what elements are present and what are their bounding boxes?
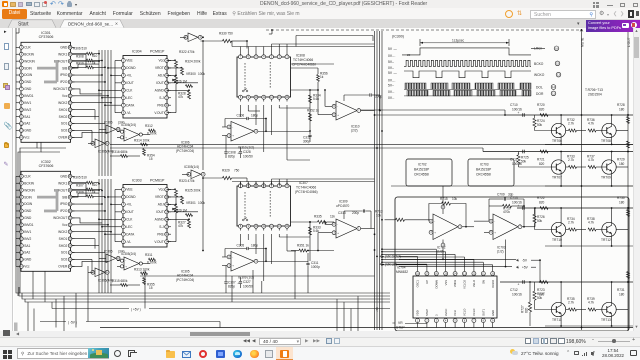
svg-text:820: 820: [539, 107, 545, 111]
svg-text:820: 820: [525, 307, 529, 313]
svg-text:+VL: +VL: [126, 74, 132, 78]
left nav panel: [0, 28, 13, 331]
svg-text:GND: GND: [24, 209, 32, 213]
resistor R732 2.7k: [566, 118, 586, 132]
svg-text:DGND: DGND: [126, 66, 136, 70]
resistor R738 4.7k: [587, 217, 602, 231]
svg-text:SHO2: SHO2: [59, 115, 68, 119]
title bar: [0, 0, 640, 8]
transistor TR713 2SD1504: [601, 302, 616, 322]
window controls: [593, 2, 595, 4]
svg-text:×: ×: [115, 22, 118, 28]
svg-text:INV1: INV1: [24, 101, 31, 105]
svg-text:SDIN: SDIN: [24, 66, 32, 70]
svg-text:INVD1: INVD1: [24, 223, 34, 227]
svg-text:16: 16: [555, 46, 558, 50]
svg-text:R310: R310: [76, 62, 84, 66]
svg-text:13: 13: [557, 73, 560, 77]
IC IC302 CF37606: [16, 160, 75, 271]
wire: [16, 137, 308, 331]
svg-text:INVD1: INVD1: [24, 94, 34, 98]
wire: [241, 105, 311, 160]
resistor R722 820: [537, 196, 548, 209]
status bar: [0, 337, 640, 347]
svg-text:-: -: [125, 130, 126, 134]
svg-text:+VL: +VL: [126, 203, 132, 207]
svg-text:Start: Start: [18, 22, 29, 28]
svg-text:1k: 1k: [320, 75, 324, 79]
svg-text:SIB: SIB: [62, 195, 67, 199]
svg-text:470k: 470k: [503, 210, 510, 214]
svg-text:750: 750: [234, 168, 240, 172]
svg-text:Vcc: Vcc: [158, 188, 164, 192]
svg-text:AVCC: AVCC: [444, 309, 448, 316]
svg-text:CLK: CLK: [126, 89, 133, 93]
wire dashed control: [266, 29, 582, 31]
svg-text:IOUT: IOUT: [126, 210, 134, 214]
svg-text:V.OUT: V.OUT: [154, 240, 163, 244]
svg-text:0V....: 0V....: [388, 78, 395, 82]
svg-text:4.7k: 4.7k: [588, 158, 594, 162]
svg-text:100/50: 100/50: [243, 154, 253, 158]
svg-text:GND: GND: [60, 46, 68, 50]
svg-text:-VL: -VL: [126, 240, 131, 244]
wire dash hook to 4066: [269, 29, 273, 34]
op-amp IC309 (1/2): [222, 252, 308, 280]
wire input feeds: [317, 89, 326, 251]
capacitor C307 820p: [224, 266, 235, 289]
svg-text:2.7k: 2.7k: [568, 301, 574, 305]
svg-text:( -5V ): ( -5V ): [68, 321, 77, 325]
svg-text:C709: C709: [497, 193, 505, 197]
resistor R354 15: [143, 149, 155, 161]
svg-text:SO1: SO1: [61, 251, 68, 255]
svg-text:180: 180: [619, 162, 625, 166]
svg-text:-5V: -5V: [522, 258, 528, 262]
svg-text:R313 100k: R313 100k: [134, 267, 150, 271]
resistor R335 11k (ch2): [291, 214, 335, 223]
svg-text:INV1: INV1: [24, 230, 31, 234]
svg-text:47k: 47k: [178, 224, 184, 228]
tray: [510, 349, 515, 354]
svg-text:180: 180: [619, 292, 625, 296]
wire: [483, 151, 633, 187]
svg-text:R329: R329: [222, 168, 230, 172]
resistor R726 50k 50k: [533, 208, 551, 230]
svg-text:INV2: INV2: [24, 108, 31, 112]
svg-text:GND: GND: [24, 80, 32, 84]
resistor R729 180: [617, 141, 630, 166]
svg-text:R330 750: R330 750: [219, 32, 233, 36]
svg-text:WCKIN: WCKIN: [24, 59, 35, 63]
op-amp IC310 (2/2): [318, 101, 375, 132]
svg-text:IP2O: IP2O: [60, 80, 68, 84]
potentiometer VR301 100k: [172, 201, 205, 213]
capacitor C311 1000p: [306, 253, 320, 270]
capacitor C308 820p: [224, 136, 235, 159]
svg-text:IC302: IC302: [41, 160, 51, 164]
svg-text:WCK2: WCK2: [58, 101, 67, 105]
svg-text:-: -: [125, 259, 126, 263]
IC IC703 label box: [468, 159, 514, 186]
svg-text:5V--: 5V--: [388, 60, 394, 64]
quick access toolbar icons: [2, 1, 8, 7]
resistor R333 5.6k: [309, 225, 321, 235]
svg-text:2.7k: 2.7k: [568, 221, 574, 225]
wire: [167, 189, 198, 242]
resistor R308 510: [72, 54, 102, 62]
svg-text:12: 12: [552, 85, 555, 89]
wire VR STEP to pin 2: [405, 323, 427, 324]
svg-text:IOUT: IOUT: [126, 81, 134, 85]
svg-text:33p: 33p: [508, 193, 514, 197]
svg-text:10k: 10k: [452, 197, 458, 201]
svg-text:(PC74HC04): (PC74HC04): [176, 149, 194, 153]
svg-text:Vcc: Vcc: [62, 223, 68, 227]
resistor R329 1M: [174, 209, 193, 217]
svg-text:10k: 10k: [376, 214, 382, 218]
wire: [517, 207, 633, 247]
svg-text:VROT: VROT: [155, 66, 164, 70]
IC IC702 label box: [406, 159, 452, 186]
IC IC301 CF37606: [16, 31, 75, 143]
svg-text:+: +: [518, 111, 520, 115]
svg-text:LEC: LEC: [126, 96, 133, 100]
svg-text:T.R706~713: T.R706~713: [585, 88, 603, 92]
svg-text:VCLI: VCLI: [453, 310, 457, 316]
svg-text:OVER: OVER: [58, 136, 68, 140]
svg-text:TC74HC4066: TC74HC4066: [293, 58, 313, 62]
resistor R736 4.7k: [587, 118, 602, 132]
wire: [505, 114, 633, 145]
capacitor C709 33p: [489, 193, 524, 227]
wire: [18, 142, 358, 331]
svg-text:IC304: IC304: [132, 50, 142, 54]
resistor R316 680k: [110, 150, 140, 158]
svg-text:IC306(2/4): IC306(2/4): [121, 123, 136, 127]
wire: [291, 64, 334, 131]
svg-text:5V--: 5V--: [388, 84, 394, 88]
resistor R334 5.6k: [309, 93, 321, 103]
transistor TR712 2SD1504: [601, 222, 616, 242]
svg-text:IC702: IC702: [418, 162, 427, 166]
svg-text:TR709: TR709: [601, 175, 611, 179]
svg-text:IC309: IC309: [339, 200, 348, 204]
svg-text:100k: 100k: [198, 201, 205, 205]
resistor R328 47k: [178, 91, 191, 99]
svg-text:AGND: AGND: [155, 218, 165, 222]
svg-text:TR706: TR706: [552, 139, 562, 143]
svg-text:WCKOUT: WCKOUT: [53, 216, 67, 220]
node -5V bus: [40, 321, 220, 328]
resistor R720 820: [537, 103, 548, 116]
svg-text:(IC300): (IC300): [392, 35, 404, 39]
inverter IC305 (3/4): [99, 250, 125, 263]
svg-text:820: 820: [539, 200, 545, 204]
svg-text:50k: 50k: [537, 296, 543, 300]
svg-text:2SD1504: 2SD1504: [588, 93, 602, 97]
svg-text:820p: 820p: [228, 155, 235, 159]
wire: [500, 281, 633, 327]
svg-text:GND: GND: [24, 258, 32, 262]
svg-text:5.6k: 5.6k: [313, 97, 319, 101]
svg-text:0V--: 0V--: [388, 66, 394, 70]
svg-text:IC308: IC308: [296, 54, 305, 58]
svg-text:R316 680k: R316 680k: [112, 150, 128, 154]
svg-text:WCK1: WCK1: [58, 181, 67, 185]
resistor R351 1k: [291, 243, 334, 252]
svg-text:4.7k: 4.7k: [588, 301, 594, 305]
svg-text:TR710: TR710: [552, 238, 562, 242]
svg-text:GND: GND: [24, 129, 32, 133]
svg-text:47k: 47k: [178, 95, 184, 99]
svg-text:R715: R715: [440, 197, 448, 201]
svg-text:180: 180: [619, 200, 625, 204]
svg-text:WCKOUT: WCKOUT: [53, 87, 67, 91]
resistor R315 680k: [110, 279, 140, 287]
svg-text:STEP: STEP: [425, 309, 429, 316]
gray highlight annotation: [37, 60, 58, 82]
capacitor C305 180p: [225, 244, 267, 263]
svg-text:GND: GND: [24, 216, 32, 220]
svg-text:IP9O: IP9O: [60, 202, 68, 206]
svg-text:OVER: OVER: [58, 265, 68, 269]
svg-text:UP: UP: [425, 280, 429, 284]
svg-text:SA2: SA2: [24, 122, 30, 126]
svg-text:OSC1: OSC1: [416, 280, 420, 288]
resistor R731 180: [617, 272, 630, 297]
svg-text:1000p: 1000p: [311, 265, 320, 269]
svg-text:R305 510: R305 510: [73, 175, 87, 179]
transistor TR708 2SD1504: [601, 123, 616, 143]
svg-text:CF37606: CF37606: [39, 164, 54, 168]
svg-text:SA1: SA1: [24, 115, 30, 119]
svg-text:IC306: IC306: [104, 121, 113, 125]
svg-text:C305: C305: [237, 244, 245, 248]
svg-text:11k: 11k: [330, 214, 335, 218]
resistor R713 10k: [375, 210, 431, 222]
svg-text:BCKIN: BCKIN: [24, 52, 34, 56]
svg-text:DOL: DOL: [536, 85, 543, 89]
node L OUT line: [627, 29, 631, 330]
svg-text:IC305: IC305: [104, 250, 113, 254]
svg-text:50k: 50k: [537, 219, 543, 223]
svg-text:180p: 180p: [251, 244, 258, 248]
svg-text:-: -: [494, 219, 495, 223]
IC IC704 MN6632: [396, 266, 497, 328]
svg-text:(VR DOW): (VR DOW): [385, 255, 401, 259]
wire op-amp supply rails: [399, 186, 516, 268]
svg-text:SO2: SO2: [61, 258, 68, 262]
resistor R311: [145, 253, 157, 264]
node VR DOWN: [380, 255, 418, 268]
svg-text:VR300: VR300: [186, 72, 196, 76]
svg-text:-VL: -VL: [126, 111, 131, 115]
resistor R737 4.7k: [587, 155, 602, 169]
svg-text:S.J: S.J: [159, 96, 164, 100]
hex inverter label IC305: [176, 269, 194, 281]
svg-text:0V...: 0V...: [388, 96, 395, 100]
svg-text:SO2: SO2: [61, 129, 68, 133]
svg-text:8 200k: 8 200k: [147, 131, 157, 135]
resistor R730 180: [617, 196, 630, 216]
svg-text:PCM61P: PCM61P: [150, 179, 165, 183]
svg-text:-: -: [337, 222, 338, 226]
svg-text:WCKIN: WCKIN: [24, 188, 35, 192]
svg-text:R322 470k: R322 470k: [179, 50, 195, 54]
resistor R356 1k: [291, 68, 328, 91]
svg-text:1k: 1k: [92, 190, 96, 194]
svg-text:GND: GND: [60, 175, 68, 179]
svg-text:OUT1: OUT1: [481, 308, 485, 316]
svg-text:Vcc: Vcc: [24, 136, 30, 140]
svg-text:MN6632: MN6632: [396, 270, 408, 274]
resistor R715 10k feedback: [429, 197, 467, 228]
svg-text:GND: GND: [24, 87, 32, 91]
svg-text:IP2O: IP2O: [60, 209, 68, 213]
svg-text:+: +: [518, 282, 520, 286]
svg-text:BCKIN: BCKIN: [24, 181, 34, 185]
node VR STEP: [392, 321, 405, 329]
node MUTE line: [580, 29, 584, 330]
capacitor C712 100/16: [510, 280, 524, 296]
svg-text:R324 200k: R324 200k: [185, 60, 201, 64]
wire: [98, 190, 118, 242]
transistor TR710 2SD1504: [551, 222, 565, 242]
svg-text:Vcc: Vcc: [158, 59, 164, 63]
svg-text:SDIN: SDIN: [24, 195, 32, 199]
svg-text:WCKO: WCKO: [534, 73, 545, 77]
potentiometer VR300 100k: [172, 72, 205, 84]
svg-text:IC703: IC703: [480, 162, 489, 166]
wire: [375, 114, 506, 116]
svg-text:DATA: DATA: [126, 232, 135, 236]
wire power bus: [16, 281, 390, 302]
svg-text:VR301: VR301: [186, 201, 196, 205]
svg-text:IP9O: IP9O: [60, 73, 68, 77]
resistor R307 510: [72, 183, 102, 191]
svg-text:CRC4558I: CRC4558I: [476, 172, 491, 176]
svg-text:VELO: VELO: [472, 280, 476, 287]
op-amp IC305(2/4): [117, 252, 150, 270]
resistor R355 15: [143, 278, 155, 290]
svg-text:DGND: DGND: [126, 195, 136, 199]
svg-text:R307: R307: [76, 184, 84, 188]
svg-text:SA2: SA2: [24, 251, 30, 255]
svg-text:Vcc: Vcc: [24, 265, 30, 269]
svg-text:11: 11: [552, 91, 555, 95]
svg-text:R315 680k: R315 680k: [112, 279, 128, 283]
svg-text:0V...: 0V...: [388, 90, 395, 94]
DAC IC303 PCM61P: [118, 179, 171, 248]
op-amp IC310 (1/2): [222, 122, 310, 150]
node VR UP: [380, 262, 427, 268]
svg-text:R325 200k: R325 200k: [185, 189, 201, 193]
svg-text:4.7k: 4.7k: [588, 122, 594, 126]
capacitor C328 100/50: [237, 147, 253, 158]
svg-text:SHO1: SHO1: [59, 108, 68, 112]
hex inverter label IC306: [176, 140, 194, 152]
wire: [167, 60, 198, 113]
svg-text:WCK2: WCK2: [58, 230, 67, 234]
DAC IC304 PCM61P: [118, 50, 171, 119]
inverter IC306 (3/4): [99, 121, 125, 134]
svg-text:510: 510: [92, 183, 98, 187]
capacitor C711 100/16: [510, 150, 524, 166]
svg-text:AGND: AGND: [155, 89, 165, 93]
svg-text:( +5V ): ( +5V ): [131, 308, 141, 312]
resistor R723 820: [537, 281, 548, 297]
svg-text:TR711: TR711: [552, 318, 562, 322]
svg-text:IC305(2/4): IC305(2/4): [121, 252, 136, 256]
svg-text:SHO2: SHO2: [59, 244, 68, 248]
svg-text:DGIN: DGIN: [24, 202, 33, 206]
right scrollbar: [633, 28, 640, 331]
svg-text:820p: 820p: [228, 285, 235, 289]
wire bus: [72, 179, 112, 293]
resistor R724 50k 50k: [533, 115, 551, 131]
capacitor C306 180p: [225, 114, 267, 133]
resistor R325: [181, 189, 201, 204]
capacitor C313 200p: [338, 209, 371, 228]
transistor TR709 2SD1504: [601, 160, 616, 180]
svg-text:IOUT: IOUT: [156, 210, 164, 214]
resistor R312: [145, 124, 157, 135]
svg-text:VEE: VEE: [126, 188, 132, 192]
svg-text:100/50: 100/50: [243, 284, 253, 288]
resistor R310: [72, 61, 105, 69]
svg-text:VCLO2: VCLO2: [463, 280, 467, 289]
svg-text:VDD3: VDD3: [453, 279, 457, 287]
svg-text:VDD: VDD: [416, 310, 420, 316]
svg-text:ADJ: ADJ: [158, 74, 164, 78]
resistor R313 100k: [134, 267, 150, 274]
svg-text:SHO1: SHO1: [59, 237, 68, 241]
svg-text:VCLO: VCLO: [472, 309, 476, 316]
capacitor 200p feedback: [344, 93, 382, 111]
svg-text:GND: GND: [491, 310, 495, 316]
svg-text:BA15218P: BA15218P: [476, 167, 491, 171]
svg-text:-: -: [434, 219, 435, 223]
node -5V: [516, 258, 540, 282]
svg-text:STEP: STEP: [396, 325, 405, 329]
svg-text:180p: 180p: [251, 114, 258, 118]
wire: [98, 61, 118, 113]
resistor R306 510: [72, 46, 99, 55]
svg-text:50k: 50k: [537, 123, 543, 127]
purple promo tooltip: [577, 21, 580, 27]
svg-text:(VR UP): (VR UP): [385, 262, 397, 266]
transistor TR711 2SD1504: [551, 302, 565, 322]
svg-text:IC305(1/4): IC305(1/4): [184, 165, 199, 169]
svg-text:VEE: VEE: [126, 59, 132, 63]
svg-text:TC74HC4066: TC74HC4066: [296, 186, 316, 190]
timing diagram IC300: [388, 35, 561, 100]
resistor R330 750: [200, 32, 247, 49]
wire: [15, 47, 17, 137]
IC IC308 TC74HC4066: [237, 53, 316, 102]
node +5V bus: [52, 302, 390, 312]
svg-text:DOWN: DOWN: [434, 280, 438, 289]
svg-text:R312: R312: [145, 124, 153, 128]
resistor R305 510: [72, 175, 99, 184]
svg-text:WCK1: WCK1: [58, 52, 67, 56]
svg-text:R308: R308: [76, 55, 84, 59]
svg-text:CLR: CLR: [24, 175, 31, 179]
wire: [232, 179, 375, 188]
svg-text:R314 100k: R314 100k: [134, 138, 150, 142]
svg-text:(PC74HC04): (PC74HC04): [176, 278, 194, 282]
